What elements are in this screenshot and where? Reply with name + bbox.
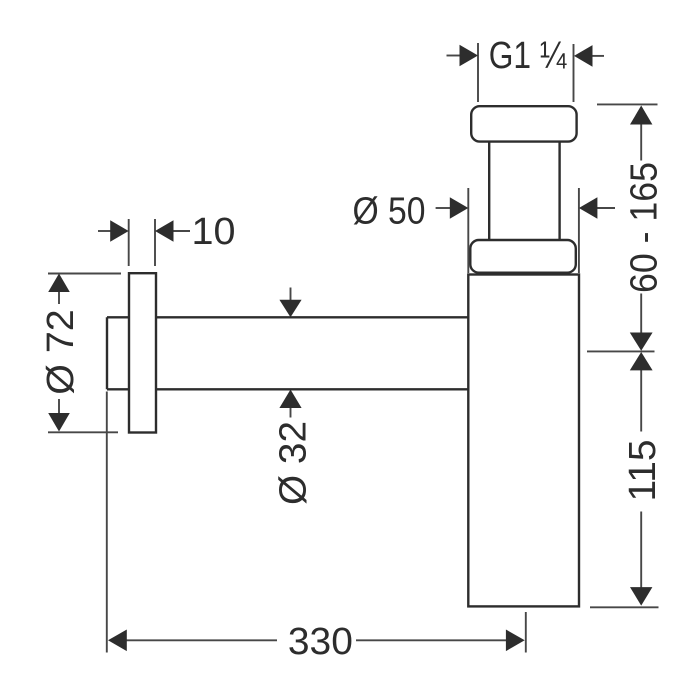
svg-text:G1 ¼: G1 ¼ <box>489 35 568 77</box>
svg-text:60 - 165: 60 - 165 <box>624 162 666 293</box>
svg-text:10: 10 <box>192 211 236 253</box>
svg-text:330: 330 <box>288 621 353 663</box>
svg-text:Ø 32: Ø 32 <box>273 421 315 505</box>
svg-text:Ø 72: Ø 72 <box>40 309 82 395</box>
svg-text:115: 115 <box>622 440 664 502</box>
svg-text:Ø 50: Ø 50 <box>353 191 426 233</box>
